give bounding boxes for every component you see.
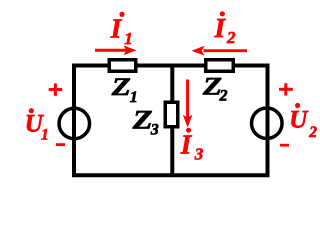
svg-text:I: I — [180, 130, 193, 160]
svg-text:2: 2 — [308, 124, 317, 141]
svg-text:1: 1 — [124, 29, 133, 48]
svg-text:I: I — [110, 14, 123, 44]
svg-text:I: I — [214, 13, 227, 43]
svg-text:2: 2 — [219, 88, 228, 105]
svg-text:U: U — [289, 107, 309, 134]
svg-text:Z: Z — [132, 104, 153, 134]
svg-text:2: 2 — [226, 28, 236, 47]
svg-text:Z: Z — [111, 74, 131, 101]
svg-text:3: 3 — [150, 122, 159, 139]
svg-text:3: 3 — [194, 145, 204, 164]
svg-text:1: 1 — [41, 127, 49, 144]
